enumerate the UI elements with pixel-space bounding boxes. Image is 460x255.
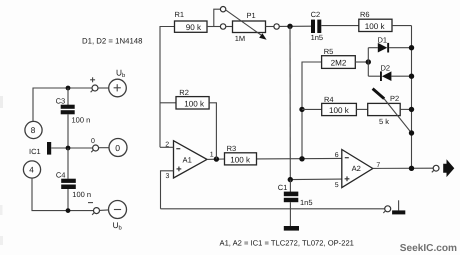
svg-text:100 k: 100 k <box>365 22 386 31</box>
wire pin8 to +Ub rail <box>33 88 92 122</box>
node R4 left <box>299 107 304 112</box>
svg-text:2M2: 2M2 <box>331 58 347 67</box>
node D1 right <box>409 45 414 50</box>
svg-text:R2: R2 <box>179 88 189 97</box>
svg-text:D1, D2 = 1N4148: D1, D2 = 1N4148 <box>82 36 142 45</box>
svg-text:R5: R5 <box>324 47 334 56</box>
scan smudge left edge <box>0 96 3 108</box>
wire P2 to right rail <box>400 108 411 110</box>
svg-text:D1: D1 <box>378 35 388 44</box>
svg-text:3: 3 <box>166 173 170 180</box>
svg-text:R1: R1 <box>175 10 185 19</box>
svg-text:100 n: 100 n <box>72 115 91 124</box>
P2 wiper arrow <box>373 89 385 99</box>
svg-text:C2: C2 <box>311 10 321 19</box>
wire A2 output <box>373 167 433 169</box>
output arrow <box>443 159 454 177</box>
wire C2 to R6 <box>321 25 359 27</box>
wire R5 to diode branch <box>355 61 368 63</box>
svg-text:A1: A1 <box>183 156 192 165</box>
svg-text:100 n: 100 n <box>72 190 91 199</box>
svg-text:P1: P1 <box>247 11 256 20</box>
svg-text:100 k: 100 k <box>230 155 251 164</box>
svg-text:C3: C3 <box>56 97 66 106</box>
svg-text:90 k: 90 k <box>186 23 202 32</box>
pin 4 <box>23 161 40 178</box>
P1 left terminal <box>220 24 225 29</box>
node P2 right <box>409 107 414 112</box>
wire left rail <box>160 27 175 148</box>
source -Ub <box>109 201 127 219</box>
svg-text:5 k: 5 k <box>379 117 389 126</box>
node pin5 junction <box>288 177 293 182</box>
terminal output <box>433 165 439 171</box>
svg-text:R4: R4 <box>324 95 334 104</box>
svg-text:SeekIC.com: SeekIC.com <box>400 243 457 254</box>
node -Ub junction <box>66 208 71 213</box>
wire A1 pin2 <box>160 146 174 148</box>
P1 wiper terminal <box>220 7 225 12</box>
wire diode branch vertical <box>367 48 369 76</box>
svg-text:100 k: 100 k <box>329 106 350 115</box>
wire P1 to node <box>266 26 274 28</box>
svg-text:A2: A2 <box>352 164 361 173</box>
wire R4 to P2 <box>356 108 367 110</box>
wire A1 output <box>207 158 225 160</box>
svg-text:P2: P2 <box>390 94 399 103</box>
svg-text:5: 5 <box>335 182 339 189</box>
svg-text:C1: C1 <box>278 183 288 192</box>
wire R3 output to A2 pin6 <box>257 157 342 160</box>
terminal +Ub <box>92 85 98 91</box>
svg-text:C4: C4 <box>56 170 66 179</box>
wire right rail <box>411 26 413 169</box>
svg-text:6: 6 <box>335 152 339 159</box>
node mid <box>66 146 71 151</box>
wire C2 node down to pin5 node <box>289 26 291 179</box>
svg-text:IC1: IC1 <box>29 147 41 156</box>
IC1 supply bar <box>47 142 51 155</box>
svg-text:1n5: 1n5 <box>300 198 313 207</box>
node pin6 junction <box>299 156 304 161</box>
svg-text:A1, A2 = IC1 = TLC272, TL072,: A1, A2 = IC1 = TLC272, TL072, OP-221 <box>220 239 354 248</box>
terminal 0 <box>93 145 99 151</box>
terminal after P1 <box>274 24 279 29</box>
wire C3 to mid node <box>67 114 69 148</box>
op-amp A1 <box>174 141 208 178</box>
wire terminal to C2 <box>279 25 311 27</box>
svg-text:0: 0 <box>115 143 120 153</box>
svg-text:4: 4 <box>29 166 34 175</box>
node +Ub junction <box>66 86 71 91</box>
node A1 output <box>214 156 219 161</box>
wire R1 to P1 <box>207 26 220 28</box>
node diode branch <box>366 59 371 64</box>
wire IC1 bar to 0 terminal <box>51 147 92 149</box>
pin 8 <box>25 121 42 138</box>
svg-text:R3: R3 <box>227 144 237 153</box>
wire R6 to right rail <box>392 25 412 27</box>
node D2 right <box>409 74 414 79</box>
wire pin5 <box>290 178 342 181</box>
wire pin4 to -Ub rail <box>32 178 94 211</box>
op-amp A2 <box>342 150 373 188</box>
svg-text:1M: 1M <box>235 34 245 43</box>
wire wiper branch <box>214 9 221 26</box>
svg-text:1n5: 1n5 <box>311 33 324 42</box>
wire bottom rail <box>161 208 385 210</box>
svg-text:D2: D2 <box>381 64 391 73</box>
svg-text:8: 8 <box>31 126 36 135</box>
node C2 junction <box>287 24 292 29</box>
ground bottom right <box>398 200 400 210</box>
svg-text:0: 0 <box>91 138 95 145</box>
svg-text:1: 1 <box>210 152 214 159</box>
wire to P1 body <box>226 26 233 28</box>
terminal bottom right <box>385 206 391 212</box>
svg-text:100 k: 100 k <box>184 99 205 108</box>
source 0 <box>99 147 110 149</box>
node output <box>409 166 414 171</box>
node P2 wiper <box>409 130 414 135</box>
P1 wiper arrow <box>226 10 261 35</box>
svg-text:R6: R6 <box>360 10 370 19</box>
terminal -Ub <box>94 208 100 214</box>
wire R2 to A1 output <box>209 103 216 159</box>
ground under C1 <box>289 209 291 226</box>
source +Ub <box>109 79 127 97</box>
wire A1 pin3 to bottom rail <box>161 171 174 209</box>
